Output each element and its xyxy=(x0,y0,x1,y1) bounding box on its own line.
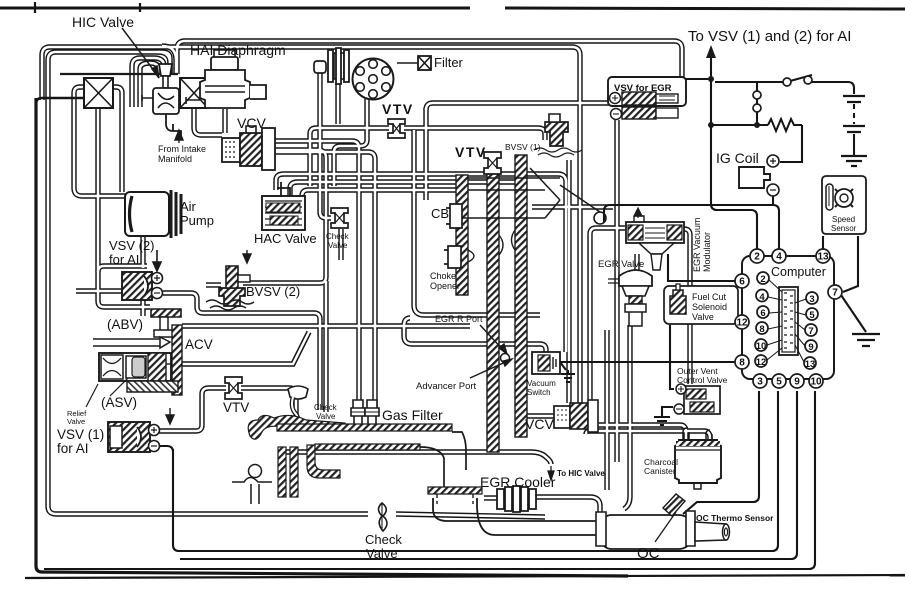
svg-text:Valve: Valve xyxy=(316,412,336,421)
svg-text:VTV: VTV xyxy=(455,144,487,160)
VTV top icon xyxy=(388,119,405,138)
distributor xyxy=(353,59,394,100)
fuel cut solenoid valve xyxy=(664,284,738,324)
svg-text:for AI: for AI xyxy=(57,441,89,456)
speed sensor xyxy=(822,176,866,234)
air cleaner X-box 1 xyxy=(84,78,113,108)
svg-text:Pump: Pump xyxy=(180,213,214,228)
svg-text:13: 13 xyxy=(817,252,829,263)
VCV top xyxy=(222,126,275,170)
svg-text:2: 2 xyxy=(754,252,760,263)
arrowhead To VSV xyxy=(706,45,716,58)
leader lines inner circles xyxy=(767,280,806,362)
svg-text:EGR R Port: EGR R Port xyxy=(435,314,483,324)
svg-text:Solenoid: Solenoid xyxy=(692,302,727,312)
svg-text:10: 10 xyxy=(756,341,767,352)
IG coil body xyxy=(739,155,779,196)
wire vacuum switch ground stub xyxy=(560,362,566,370)
svg-text:Check: Check xyxy=(365,532,402,547)
svg-text:VTV: VTV xyxy=(382,101,414,117)
engine block xyxy=(232,386,345,504)
HAI diaphragm xyxy=(186,50,266,108)
ground at vacuum switch xyxy=(561,370,575,382)
svg-text:12: 12 xyxy=(756,357,767,368)
top scan edge line xyxy=(0,8,905,9)
battery top cell xyxy=(843,96,865,102)
svg-text:5: 5 xyxy=(809,310,815,321)
check valve bottom icon xyxy=(379,503,388,531)
air pump xyxy=(125,190,181,238)
svg-text:9: 9 xyxy=(794,377,800,388)
EGR vacuum modulator xyxy=(626,208,684,270)
svg-text:Speed: Speed xyxy=(832,215,855,224)
svg-text:Valve: Valve xyxy=(67,417,85,426)
svg-text:HIC Valve: HIC Valve xyxy=(72,14,134,30)
svg-text:Choke: Choke xyxy=(430,271,456,281)
svg-text:EGR Vacuum: EGR Vacuum xyxy=(692,218,702,272)
left page border xyxy=(36,98,628,576)
svg-text:Opener: Opener xyxy=(430,281,460,291)
svg-text:To VSV (1) and (2) for AI: To VSV (1) and (2) for AI xyxy=(688,28,851,45)
svg-text:Control Valve: Control Valve xyxy=(677,375,728,385)
air duct top line xyxy=(60,73,178,75)
VSV for EGR box xyxy=(608,77,686,120)
VTV2 icon xyxy=(484,152,501,174)
svg-text:VCV: VCV xyxy=(525,416,554,432)
svg-text:Modulator: Modulator xyxy=(702,232,712,272)
svg-text:Filter: Filter xyxy=(434,55,464,70)
wire 4-circle up to left run xyxy=(604,205,779,250)
carburetor wall 2 xyxy=(487,168,499,452)
svg-text:9: 9 xyxy=(808,342,813,353)
svg-text:Vacuum: Vacuum xyxy=(527,379,556,388)
svg-text:BVSV (1): BVSV (1) xyxy=(505,142,541,152)
svg-text:12: 12 xyxy=(736,318,748,329)
svg-text:Valve: Valve xyxy=(692,312,714,322)
wire speed sensor down right to 7 xyxy=(843,236,858,292)
VSV (2) icon xyxy=(122,250,163,300)
VSV (1) icon xyxy=(108,408,174,452)
wire resistor to IG coil plus xyxy=(780,125,802,162)
BVSV (2) icon xyxy=(206,250,254,310)
svg-text:4: 4 xyxy=(759,292,765,303)
battery to ground xyxy=(853,134,855,155)
battery dashed link xyxy=(853,104,855,124)
svg-text:7: 7 xyxy=(832,288,838,299)
svg-text:6: 6 xyxy=(739,277,745,288)
wire 13-circle up to speed sensor xyxy=(822,236,824,250)
svg-text:OC: OC xyxy=(637,545,660,562)
wire outer vent valve plus up-left xyxy=(670,325,674,389)
switch contacts xyxy=(783,78,791,86)
wire switch lower contacts down to resistor line xyxy=(756,82,758,125)
svg-text:HAI Diaphragm: HAI Diaphragm xyxy=(190,42,286,58)
from intake manifold arrow xyxy=(175,130,183,143)
EGR cooler bellows xyxy=(497,486,536,512)
svg-text:Switch: Switch xyxy=(527,388,551,397)
svg-text:6: 6 xyxy=(760,308,765,319)
wire switch leg horizontal xyxy=(711,81,783,83)
advancer port circle xyxy=(501,354,510,363)
ground right of computer xyxy=(852,334,880,346)
svg-text:CB: CB xyxy=(431,206,449,221)
ground below battery xyxy=(841,156,867,166)
svg-text:Gas Filter: Gas Filter xyxy=(382,407,443,423)
svg-text:2: 2 xyxy=(760,274,765,285)
svg-text:ACV: ACV xyxy=(185,337,213,352)
distributor advance capsule xyxy=(314,48,349,84)
wire 6-circle left to EGR modulator xyxy=(668,254,737,281)
connector body xyxy=(779,287,798,355)
svg-text:Computer: Computer xyxy=(771,265,826,279)
svg-text:To HIC Valve: To HIC Valve xyxy=(557,469,605,478)
HIC valve xyxy=(142,64,181,140)
choke opener flange xyxy=(444,246,461,268)
svg-text:VSV (2): VSV (2) xyxy=(109,238,155,253)
svg-text:7: 7 xyxy=(808,326,813,337)
junction dots xyxy=(708,76,714,82)
wire IG coil minus down xyxy=(772,196,774,205)
svg-text:(ASV): (ASV) xyxy=(101,395,137,410)
svg-text:VSV for EGR: VSV for EGR xyxy=(614,83,672,94)
advancer port leader xyxy=(470,359,512,378)
HIC leader arrow xyxy=(122,28,159,78)
svg-text:OC Thermo Sensor: OC Thermo Sensor xyxy=(696,513,774,523)
svg-text:Sensor: Sensor xyxy=(831,224,857,233)
svg-text:BVSV (2): BVSV (2) xyxy=(246,284,300,299)
svg-text:Manifold: Manifold xyxy=(158,154,192,164)
wire VSV1 minus to x173 xyxy=(158,446,173,452)
HAC valve xyxy=(262,182,305,230)
number circles xyxy=(735,249,842,388)
svg-text:10: 10 xyxy=(810,377,822,388)
tick marks on top edge xyxy=(35,2,140,13)
battery bottom cell xyxy=(843,126,865,132)
svg-text:EGR Cooler: EGR Cooler xyxy=(480,474,556,490)
switch blade xyxy=(790,75,812,81)
intake/exhaust pipe to EGR xyxy=(277,424,597,535)
wire 9-circle down-left long xyxy=(180,391,797,559)
svg-text:Valve: Valve xyxy=(366,546,398,561)
svg-text:13: 13 xyxy=(805,359,816,370)
svg-text:4: 4 xyxy=(776,252,782,263)
To HIC valve arrow xyxy=(548,466,554,480)
wire 12-circle left to fuel cut valve xyxy=(683,316,736,322)
wire 3-circle down to OC thermo sensor xyxy=(683,391,759,514)
svg-text:Valve: Valve xyxy=(328,241,348,250)
EGR valve xyxy=(608,270,652,326)
svg-text:Air: Air xyxy=(180,199,197,214)
air cleaner X-box 2 xyxy=(180,78,208,108)
VCV bottom icon xyxy=(554,400,598,432)
wire 10-circle down-left to border corner xyxy=(44,391,815,569)
svg-text:From Intake: From Intake xyxy=(158,144,206,154)
carb top linkage xyxy=(468,168,560,200)
wire resistor run xyxy=(711,124,768,126)
CB flange xyxy=(446,204,462,228)
svg-text:EGR Valve: EGR Valve xyxy=(598,259,644,270)
charcoal canister xyxy=(675,428,721,489)
svg-text:VTV: VTV xyxy=(223,400,249,415)
carb float bowl linkage circle xyxy=(594,212,606,224)
svg-text:5: 5 xyxy=(776,377,782,388)
svg-text:IG Coil: IG Coil xyxy=(716,150,759,166)
svg-text:3: 3 xyxy=(757,377,763,388)
svg-text:8: 8 xyxy=(759,324,764,335)
svg-text:VCV: VCV xyxy=(237,115,266,131)
svg-text:Check: Check xyxy=(314,403,338,412)
carburetor wall 1 xyxy=(456,175,468,295)
vacuum switch icon xyxy=(532,352,560,374)
outer vent control valve xyxy=(674,384,720,414)
EGR R port arrow xyxy=(480,325,507,354)
gas filter icon xyxy=(351,400,379,426)
svg-text:3: 3 xyxy=(809,294,814,305)
svg-text:VSV (1): VSV (1) xyxy=(57,427,104,442)
left border top stub xyxy=(36,98,84,104)
svg-text:(ABV): (ABV) xyxy=(107,317,143,332)
wire 7 to ground diagonal xyxy=(841,295,866,332)
check valve top icon xyxy=(331,208,348,228)
ground at outer vent xyxy=(654,417,670,425)
wire outer vent minus to ground xyxy=(662,407,673,416)
BVSV1 icon xyxy=(534,114,582,157)
resistor R zigzag xyxy=(768,119,802,131)
svg-text:8: 8 xyxy=(739,358,745,369)
bottom scan edge line xyxy=(25,575,905,578)
ACV assembly xyxy=(93,309,182,396)
svg-text:HAC Valve: HAC Valve xyxy=(254,231,317,246)
carburetor wall 3 xyxy=(515,155,527,437)
VTV bottom icon xyxy=(225,377,242,399)
wire switch right to battery xyxy=(810,82,854,94)
wire 8-circle left to vacuum switch xyxy=(560,361,736,363)
computer box xyxy=(742,256,834,379)
wire VSV-for-EGR to junction xyxy=(684,78,711,80)
wire 5-circle down-left long xyxy=(173,391,778,551)
svg-text:Advancer Port: Advancer Port xyxy=(416,381,477,392)
relief valve leader xyxy=(86,384,98,407)
OC catalytic converter xyxy=(596,494,730,549)
wire To-VSV vertical main xyxy=(711,55,757,250)
svg-text:Canister: Canister xyxy=(644,466,676,476)
svg-text:Fuel Cut: Fuel Cut xyxy=(692,292,727,302)
filter box xyxy=(397,56,431,70)
carb venturi shapes xyxy=(468,230,515,262)
svg-text:Check: Check xyxy=(326,232,350,241)
svg-text:for AI: for AI xyxy=(109,252,139,267)
